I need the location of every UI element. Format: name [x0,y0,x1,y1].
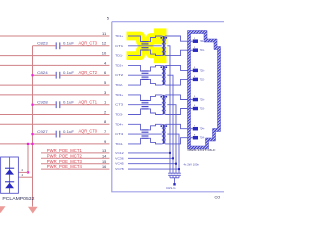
svg-text:12: 12 [102,41,107,46]
svg-text:TD4-: TD4- [200,137,205,140]
svg-text:10: 10 [102,51,107,56]
svg-text:0.1uF: 0.1uF [63,71,75,75]
svg-text:AQR_CT3: AQR_CT3 [79,40,98,45]
svg-text:C927: C927 [37,130,48,134]
svg-text:C823: C823 [37,42,48,46]
svg-text:CT1: CT1 [115,44,124,48]
svg-text:VC12: VC12 [115,151,124,155]
svg-text:TD3+: TD3+ [115,93,123,97]
svg-text:PWR_POE_MCT4: PWR_POE_MCT4 [47,164,83,169]
svg-text:TD4+: TD4+ [200,128,206,131]
svg-text:C928: C928 [37,100,48,104]
svg-text:0.1uF: 0.1uF [63,130,75,134]
svg-text:0.1uF: 0.1uF [63,42,75,46]
svg-text:TD3-: TD3- [200,108,205,111]
svg-text:TD4+: TD4+ [115,122,123,126]
svg-text:TD4-: TD4- [115,142,123,146]
svg-text:CT3: CT3 [115,103,124,107]
svg-text:CT4: CT4 [115,132,124,136]
svg-text:PWR_POE_MCT1: PWR_POE_MCT1 [47,148,83,153]
svg-text:VC45: VC45 [115,162,124,166]
svg-text:PWR_POE_MCT3: PWR_POE_MCT3 [47,159,83,164]
svg-text:TD1+: TD1+ [115,34,123,38]
svg-text:VC78: VC78 [115,167,124,171]
svg-text:TD1+: TD1+ [200,40,206,43]
svg-text:16: 16 [102,165,106,169]
svg-text:PCLAMP0532: PCLAMP0532 [2,196,35,201]
svg-text:CO: CO [215,195,221,199]
svg-text:AQR_CT1: AQR_CT1 [79,99,98,104]
svg-text:AQR_CT2: AQR_CT2 [79,70,98,75]
svg-text:C824: C824 [37,71,48,75]
svg-text:13: 13 [102,149,106,153]
svg-text:CT2: CT2 [115,73,124,77]
svg-text:4x 2kV 100n: 4x 2kV 100n [184,162,200,166]
svg-text:AQR_CT0: AQR_CT0 [79,129,98,134]
svg-text:TD1-: TD1- [115,54,123,58]
svg-text:0.1uF: 0.1uF [63,100,75,104]
svg-text:TD2+: TD2+ [200,69,206,72]
svg-text:14: 14 [102,154,106,158]
svg-text:TD2+: TD2+ [115,63,123,67]
svg-text:VC36: VC36 [115,156,124,160]
svg-text:PWR_POE_MCT2: PWR_POE_MCT2 [47,153,83,158]
svg-text:TD2-: TD2- [115,83,123,87]
svg-text:0826-1X1T-06-F: 0826-1X1T-06-F [188,148,216,152]
svg-text:CHS-G: CHS-G [166,186,176,190]
svg-text:TD3-: TD3- [115,113,123,117]
svg-text:15: 15 [102,160,106,164]
svg-text:TD3+: TD3+ [200,99,206,102]
svg-text:TD2-: TD2- [200,78,205,81]
svg-text:TD1-: TD1- [200,49,205,52]
